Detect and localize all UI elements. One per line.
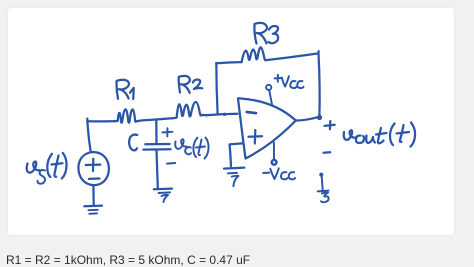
wire feedback right vertical xyxy=(319,53,320,117)
node output junction xyxy=(317,115,322,120)
label +Vcc xyxy=(275,75,304,88)
label R3 xyxy=(254,23,278,44)
label vC(t) xyxy=(175,138,208,159)
voltage source VS circle xyxy=(78,152,109,185)
output plus polarity xyxy=(325,121,335,129)
+Vcc terminal stem and circle xyxy=(266,85,272,105)
op-amp U1 triangle xyxy=(238,98,296,158)
ground below capacitor xyxy=(154,189,172,202)
-Vcc terminal stem and circle xyxy=(272,143,277,165)
output minus polarity xyxy=(324,151,331,154)
op-amp inverting marker xyxy=(247,112,256,113)
output reference ground xyxy=(318,173,329,203)
capacitor stem top xyxy=(155,121,157,143)
wire R1 to R2 with capacitor junction xyxy=(141,118,173,120)
wire feedback left vertical xyxy=(216,63,217,114)
label R1 xyxy=(117,80,134,99)
op-amp non-inverting marker xyxy=(249,130,263,144)
wire source top to R1 xyxy=(87,119,115,152)
voltage source plus marker xyxy=(86,159,101,171)
capacitor minus polarity xyxy=(167,162,175,165)
capacitor stem bottom xyxy=(157,150,158,188)
ground at non-inverting input xyxy=(224,168,244,187)
ground below source xyxy=(84,206,102,214)
voltage source minus marker xyxy=(89,177,100,180)
resistor R3 xyxy=(242,47,266,62)
capacitor plus polarity xyxy=(162,128,172,136)
label vS(t) xyxy=(27,153,67,184)
label R2 xyxy=(179,76,203,93)
wire feedback top left to R3 xyxy=(216,62,241,63)
node at inverting input junction xyxy=(223,113,226,116)
label C xyxy=(129,135,137,151)
wire R2 to op-amp inverting input xyxy=(206,114,237,116)
wire R3 to feedback top right corner xyxy=(265,51,318,60)
label -Vcc xyxy=(263,168,295,179)
resistor R2 xyxy=(172,102,206,118)
capacitor C plates xyxy=(143,144,170,150)
resistor R1 xyxy=(115,109,141,123)
wire non-inverting input to ground xyxy=(230,143,244,166)
wire op-amp output to junction xyxy=(296,117,319,121)
wire source bottom to ground xyxy=(92,185,95,205)
label vout(t) xyxy=(344,123,415,147)
